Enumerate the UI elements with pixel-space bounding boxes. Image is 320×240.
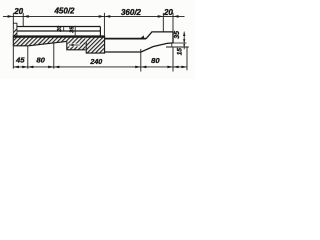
- arrows bottom row: [13, 66, 19, 69]
- svg-text:20: 20: [163, 8, 173, 17]
- svg-text:80: 80: [151, 56, 160, 65]
- svg-text:240: 240: [89, 58, 102, 66]
- arrow left at 23.2: [23, 15, 29, 18]
- slope arrow blob: [140, 35, 144, 38]
- small dim tick for 20: [63, 27, 65, 32]
- extension line x173: [172, 13, 174, 32]
- top dim line: [3, 15, 185, 17]
- arrow down at 42.3: [183, 39, 185, 43]
- extension line x23.2: [22, 13, 24, 27]
- ext x173: [172, 48, 174, 72]
- extension line x13.2: [12, 13, 14, 23]
- dim line vertical x184.2: [183, 32, 185, 50]
- ext x140.8: [140, 49, 142, 72]
- top plate outline: [17, 27, 101, 36]
- svg-text:15: 15: [177, 48, 184, 56]
- strip under right end: top edge / extension: [172, 42, 187, 44]
- white band with arrow inside block: [68, 44, 81, 47]
- arrow left at 173: [173, 15, 179, 18]
- strip left end vertical: [171, 43, 173, 47]
- svg-text:450/2: 450/2: [53, 6, 75, 15]
- extension line x104.4 (center): [103, 13, 105, 36]
- ext x27.8: [27, 46, 29, 68]
- small dim line for 35: [74, 26, 76, 36]
- arrow left at 104.7: [105, 15, 111, 18]
- strip bottom edge: [166, 46, 189, 48]
- ext x53.8: [53, 43, 55, 68]
- right sheet outline: [105, 38, 146, 40]
- arrow up at 31.6: [183, 32, 185, 36]
- ext x13.2: [12, 46, 14, 68]
- arrow down at 47.0: [183, 44, 185, 47]
- left sheet outline: [13, 35, 104, 37]
- bottom dim line: [13, 66, 187, 68]
- svg-text:20: 20: [13, 7, 23, 16]
- extension line x163.3: [162, 13, 164, 32]
- left sheet hatched areas: [13, 36, 104, 53]
- svg-text:45: 45: [15, 56, 25, 65]
- svg-text:35: 35: [174, 31, 181, 39]
- arrow right at 104.3: [99, 15, 105, 18]
- arrow right at 163.3: [158, 15, 164, 18]
- left wall (hatched): [13, 23, 17, 36]
- arrow right at 13.2: [8, 15, 14, 18]
- svg-text:20: 20: [57, 26, 63, 33]
- svg-text:360/2: 360/2: [121, 8, 142, 17]
- svg-text:80: 80: [36, 56, 45, 65]
- ext x187: [186, 47, 188, 70]
